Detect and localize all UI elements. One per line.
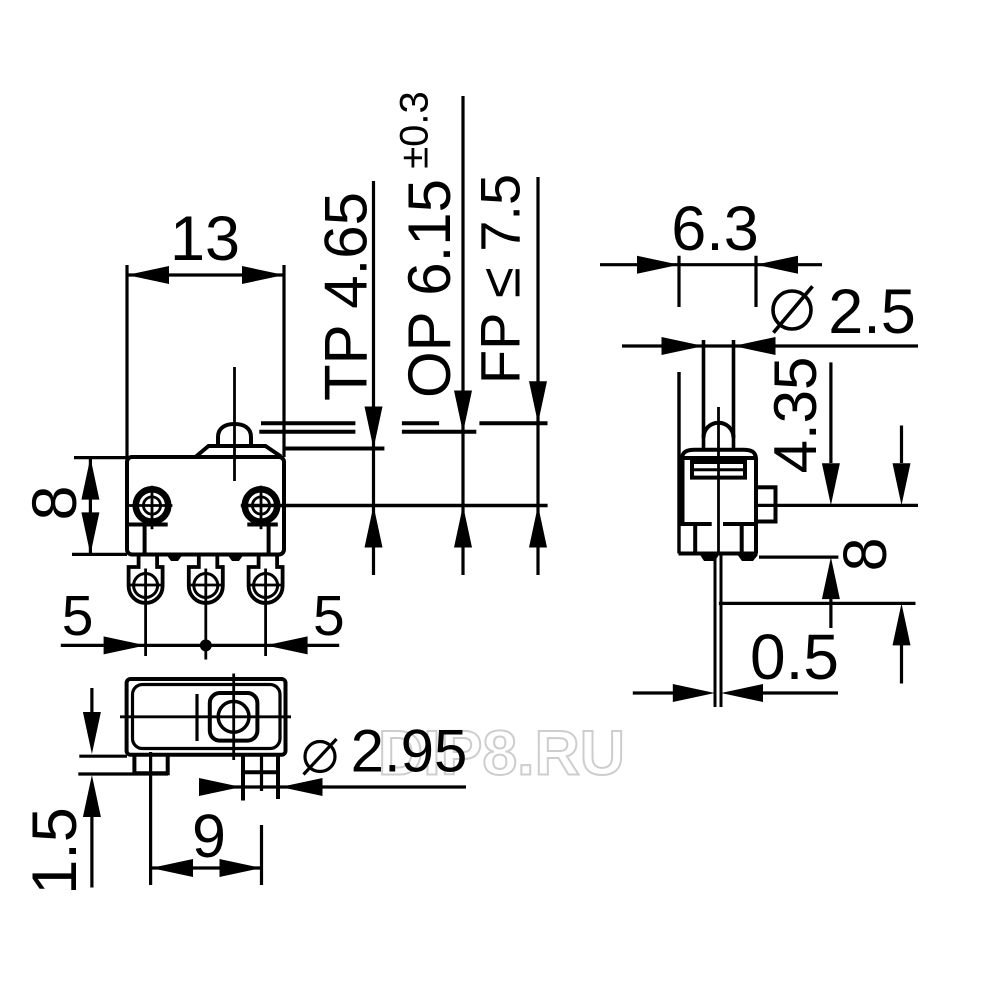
plunger dome xyxy=(218,424,251,446)
side bottom edge xyxy=(679,552,758,556)
terminal 3 cup xyxy=(249,555,283,604)
lever TP line xyxy=(284,447,384,451)
dim 5-5 line xyxy=(61,644,339,647)
lever top line FP xyxy=(261,421,548,425)
platform line right xyxy=(247,523,277,527)
dome saddle trapezoid xyxy=(196,446,281,457)
side nub left xyxy=(701,556,719,562)
terminal 2 crosshair xyxy=(189,569,224,660)
svg-text:±0.3: ±0.3 xyxy=(393,91,437,169)
dim 5-5 arrows xyxy=(104,636,146,654)
screw left ring xyxy=(136,489,168,521)
dim 8 left arrows xyxy=(81,458,99,500)
dim 8 right bottom ext xyxy=(719,602,916,605)
dim 6.3 line xyxy=(600,263,822,266)
svg-text:FP ≤ 7.5: FP ≤ 7.5 xyxy=(469,174,532,384)
diameter symbol small xyxy=(305,742,335,772)
platform line left xyxy=(127,523,168,527)
dim 13 extension lines xyxy=(127,265,284,457)
dim 1.5 ext lines xyxy=(78,756,168,774)
dim 2.5 line xyxy=(622,344,918,347)
svg-text:0.5: 0.5 xyxy=(750,621,839,693)
terminal 2 circle xyxy=(194,574,218,598)
svg-text:1.5: 1.5 xyxy=(20,807,90,895)
dim 9 ext lines xyxy=(151,752,262,885)
side body right edge xyxy=(754,458,758,554)
dim 8 right line xyxy=(900,426,903,684)
dim 0.5 arrows xyxy=(673,684,715,702)
lever bottom line OP xyxy=(259,430,476,434)
left tab xyxy=(134,755,167,774)
dim 2.95 arrows xyxy=(199,778,241,796)
dim 4.35 arrows xyxy=(822,463,840,505)
terminal 2 cup xyxy=(189,555,223,604)
outer case rect xyxy=(127,679,286,755)
dim 5-5 dot xyxy=(200,639,212,651)
side dome arc xyxy=(704,423,734,438)
dome center line xyxy=(233,367,236,481)
screw left crosshair xyxy=(129,486,173,530)
terminal 3 crosshair xyxy=(249,569,284,657)
dim 4.35 line xyxy=(829,362,832,628)
screw right inner xyxy=(252,497,269,514)
plunger square xyxy=(210,693,258,741)
dim 2.5 arrows xyxy=(662,337,704,355)
bottom view vert center line xyxy=(232,674,235,761)
dim TP arrows xyxy=(365,407,383,449)
svg-text:6.3: 6.3 xyxy=(671,194,759,264)
screw right crosshair vertical xyxy=(260,486,263,530)
svg-text:8: 8 xyxy=(831,537,899,571)
svg-text:4.35: 4.35 xyxy=(762,357,829,474)
dim 6.3 arrows xyxy=(637,256,679,274)
side body left edge xyxy=(681,458,685,524)
svg-text:5: 5 xyxy=(62,584,94,648)
svg-text:5: 5 xyxy=(313,584,345,648)
side left outer line xyxy=(677,372,680,554)
dim 9 arrows xyxy=(151,859,193,877)
screw right ring xyxy=(245,489,277,521)
dim 6.3 ext segments xyxy=(679,256,756,307)
svg-text:2.5: 2.5 xyxy=(828,277,916,347)
inner case rect xyxy=(133,685,281,749)
svg-text:OP 6.15: OP 6.15 xyxy=(396,179,463,398)
side nub right xyxy=(738,556,758,562)
side platform lines xyxy=(680,522,756,526)
dim OP arrows xyxy=(454,391,472,433)
svg-text:TP 4.65: TP 4.65 xyxy=(313,192,380,401)
leaf lever edge-on xyxy=(715,554,721,707)
terminal 1 circle xyxy=(134,574,158,598)
terminal 3 circle xyxy=(254,574,278,598)
datum line from right screw xyxy=(241,504,548,507)
side flange verticals xyxy=(695,524,742,554)
inner tick xyxy=(195,694,198,741)
svg-text:9: 9 xyxy=(192,802,226,870)
dim TP line xyxy=(372,181,375,575)
svg-text:13: 13 xyxy=(170,204,240,274)
stub right xyxy=(267,525,271,555)
dim 2.95 line xyxy=(199,785,466,788)
dim 8 left ext lines xyxy=(72,458,127,555)
switch body xyxy=(127,457,284,555)
screw left inner xyxy=(143,497,160,514)
case nub right xyxy=(228,556,243,562)
dim 8 right arrows xyxy=(893,463,911,505)
dim FP line xyxy=(536,177,539,575)
svg-text:8: 8 xyxy=(20,485,90,520)
dim 8 left line xyxy=(89,458,92,555)
dim 1.5 arrows xyxy=(90,688,93,714)
datum ext line right xyxy=(756,504,918,507)
dim 4.35 ext line xyxy=(759,555,838,558)
terminal 1 cup xyxy=(129,555,163,603)
case nub left xyxy=(167,556,182,562)
plunger pin lines xyxy=(704,340,734,450)
side cap xyxy=(682,450,756,459)
dim 13 line xyxy=(127,273,284,276)
svg-text:2.95: 2.95 xyxy=(351,718,468,785)
side center line xyxy=(717,407,720,554)
dim OP line xyxy=(461,96,464,575)
terminal 1 crosshair xyxy=(129,569,164,657)
right tab xyxy=(243,755,278,801)
dim 13 arrows xyxy=(127,266,169,284)
bottom view horiz center line xyxy=(120,715,291,718)
dim FP arrows xyxy=(529,381,547,423)
dim 0.5 line xyxy=(633,691,838,694)
striped band xyxy=(692,462,745,478)
dim 9 line xyxy=(151,866,262,869)
plunger circle xyxy=(218,701,249,732)
stub left xyxy=(143,525,147,555)
side bump xyxy=(756,487,776,521)
diameter symbol large xyxy=(773,291,811,329)
side cap base line xyxy=(682,456,756,460)
